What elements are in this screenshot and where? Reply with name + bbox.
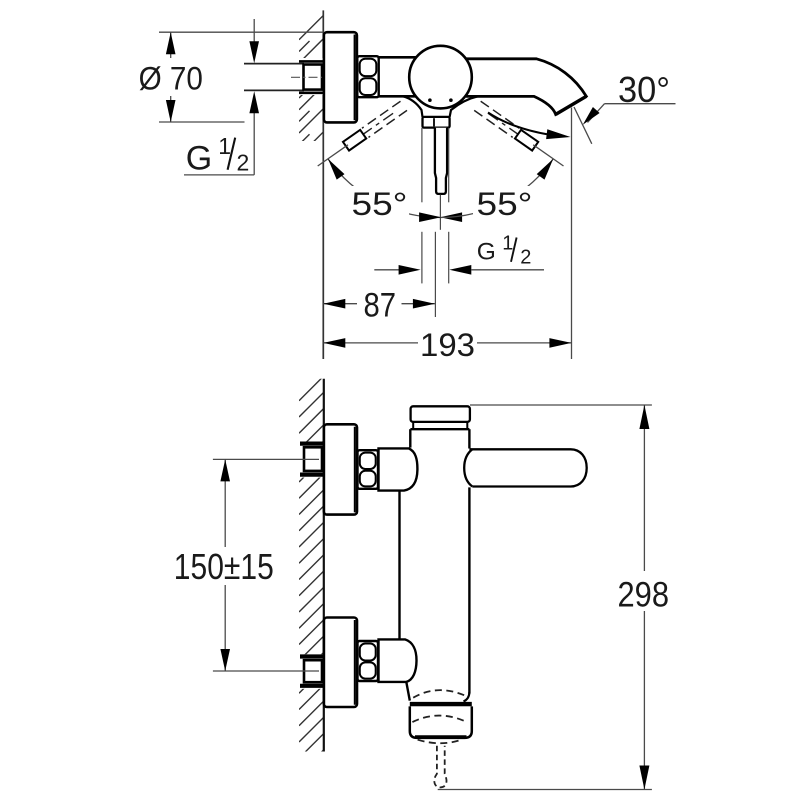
55 deg labels — [349, 186, 409, 217]
upper union flanges+square nut — [300, 442, 324, 446]
ball body circle — [409, 46, 472, 109]
lower union flanges+square nut — [300, 654, 324, 658]
white boxes clearing hatch behind unions — [299, 442, 324, 478]
dimension 150+-15: extension/center lines — [213, 458, 319, 460]
svg-text:1: 1 — [218, 133, 231, 159]
dimension G1/2 (lever collar) arrows — [374, 269, 399, 271]
escutcheon lower (bottom view) — [324, 618, 357, 708]
wall face line (top view) — [322, 10, 324, 359]
outlet cup — [410, 706, 472, 738]
svg-text:G: G — [477, 238, 496, 265]
faucet axis extension line (87 dim) — [434, 232, 436, 317]
55 deg dimension arcs — [328, 159, 441, 218]
lever ball neck — [464, 449, 472, 486]
escutcheon upper (bottom view) — [324, 424, 357, 514]
wall hatch (top view) — [299, 16, 323, 215]
body: upper shoulder edges — [409, 429, 411, 447]
lever ghost dash-dot lines at 55 deg — [363, 113, 393, 134]
svg-text:G: G — [186, 139, 212, 177]
supply pipe G1/2 tail — [244, 63, 304, 65]
dimension 193 — [323, 342, 418, 344]
body: cap ring — [412, 422, 414, 429]
hex nut lower (bottom view) — [358, 641, 379, 681]
dimension G1/2 (wall pipe): leader underline — [184, 174, 254, 176]
wall face line (bottom view) — [323, 379, 325, 752]
dimension Ø70: extension lines — [159, 31, 324, 33]
aerator hidden arcs (dashed) — [412, 716, 465, 723]
wall union thick flanges — [299, 60, 323, 63]
hex union nut (top view) — [357, 56, 378, 97]
dimension 298: extension lines — [470, 404, 652, 406]
spout outlet face (thick) — [556, 96, 587, 114]
dimension Ø70: arrows — [170, 32, 172, 58]
pivot dots — [428, 98, 432, 102]
svg-text:2: 2 — [520, 246, 531, 268]
svg-text:298: 298 — [618, 575, 670, 614]
30 deg: angled line — [574, 107, 592, 144]
body: top cap — [411, 406, 470, 422]
wall union square nut — [304, 65, 323, 90]
dimension 298: dimension line + arrows — [643, 405, 645, 571]
body: right edge segments — [468, 487, 470, 693]
dimension 87 — [323, 303, 357, 305]
body tube between nut and ball — [379, 56, 416, 59]
dimension G1/2 (wall pipe): arrows — [253, 19, 255, 45]
wall hatch (bottom view) — [299, 376, 324, 791]
svg-text:193: 193 — [420, 327, 475, 363]
lever (bottom view) — [469, 449, 586, 486]
30 deg: outlet vertical reference / 193 extension line — [571, 108, 573, 360]
lower supply boss — [379, 639, 417, 682]
30 deg: leader with arrow — [605, 103, 676, 105]
upper supply boss — [379, 448, 418, 490]
hex nut upper (bottom view) — [358, 450, 379, 489]
spout swivel curved arrow — [488, 113, 562, 137]
lever centerline below shaft — [439, 195, 441, 230]
svg-text:Ø 70: Ø 70 — [139, 61, 203, 97]
body: wide mid-section left edge — [398, 491, 400, 641]
svg-text:87: 87 — [364, 287, 397, 325]
lever shaft — [435, 128, 447, 194]
svg-text:30°: 30° — [618, 69, 670, 110]
body: lower-left slant to rim — [406, 682, 410, 701]
svg-text:55°: 55° — [477, 186, 533, 222]
collar extension lines (G1/2 dim) — [421, 128, 423, 203]
body bottom hidden edge (dashed) — [413, 690, 466, 698]
lever collar — [423, 117, 450, 128]
svg-text:55°: 55° — [352, 186, 408, 222]
svg-text:1: 1 — [502, 233, 513, 255]
svg-text:150±15: 150±15 — [174, 546, 274, 587]
spout outline — [466, 59, 586, 115]
outlet rim (thick) — [410, 702, 472, 707]
svg-text:2: 2 — [237, 149, 250, 175]
escutcheon (top view) — [324, 32, 357, 122]
hand shower hose nipple (dashed) — [434, 746, 446, 788]
transition fillets to lever collar — [403, 96, 423, 117]
pipe centerline — [291, 76, 322, 78]
dimension 150+-15: dimension line + arrows — [224, 459, 226, 547]
white box clearing hatch behind supply union — [299, 58, 324, 95]
